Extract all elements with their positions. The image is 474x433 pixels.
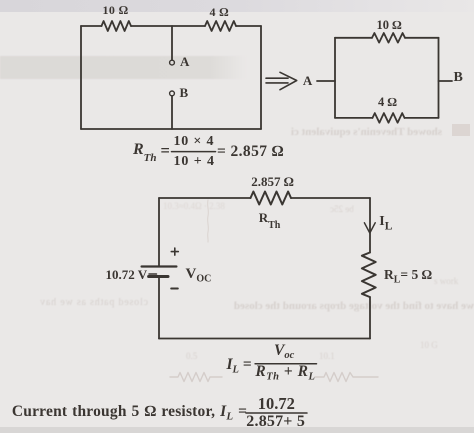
label node A: [180, 55, 189, 68]
resistor 4 ohm (circuit2 bottom): [373, 113, 405, 123]
wire: circuit2 right vertical: [438, 38, 440, 118]
label 10 ohm (circuit2): [377, 19, 402, 32]
wire: circuit3 right vertical lower: [369, 297, 371, 339]
resistor 10 ohm (circuit1 top): [102, 21, 132, 31]
resistor 4 ohm (circuit1 top): [205, 21, 236, 31]
wire: circuit2 left vertical: [334, 38, 336, 118]
bleedthrough line 1: [232, 127, 442, 138]
wire: circuit1 top left segment: [81, 25, 102, 27]
label B (circuit2): [454, 71, 463, 85]
bleedthrough box right: [452, 124, 470, 136]
wire: stub to node A: [171, 26, 173, 60]
wire: circuit3 left vertical upper: [158, 198, 160, 266]
battery VOC short plate: [149, 275, 168, 278]
bleedthrough line 2: [152, 301, 474, 312]
label 4 ohm (circuit1): [210, 6, 229, 18]
node A terminal circle: [170, 60, 175, 65]
wire: circuit1 bottom: [81, 128, 261, 130]
bottom fraction denominator: [246, 414, 305, 430]
bottom sentence: [12, 404, 247, 423]
wire: circuit2 top right segment: [405, 37, 439, 39]
formula RTh numerator: [174, 135, 215, 149]
wire: stub A to circuit2: [317, 80, 335, 82]
wire: circuit1 top right segment: [236, 25, 261, 27]
label 2.857 ohm (circuit3): [251, 175, 294, 188]
bleedthrough marks near IL fraction: [186, 352, 197, 361]
wire: circuit3 bottom: [159, 338, 370, 340]
node B terminal circle: [170, 91, 175, 96]
label RTh (circuit3): [259, 211, 281, 231]
formula IL lhs: [227, 357, 252, 376]
label VOC: [186, 267, 212, 285]
bleedthrough right margin marks: [420, 341, 438, 350]
wire: circuit2 bottom left segment: [335, 117, 373, 119]
current IL arrowhead: [364, 223, 375, 233]
implies arrow: [266, 72, 297, 89]
wire: circuit3 left vertical lower: [158, 278, 160, 339]
scan band top: [0, 0, 474, 12]
scan band mid-left: [0, 56, 246, 79]
label 4 ohm (circuit2): [378, 96, 397, 109]
wire: circuit1 top middle segment: [131, 25, 205, 27]
bleedthrough under circuit3 top wire: [330, 205, 354, 214]
wire: stub from node B: [171, 96, 173, 129]
label A (circuit2): [303, 74, 312, 87]
label RL = 5 ohm: [384, 268, 432, 286]
wire: stub circuit2 to B: [439, 80, 453, 82]
formula RTh result: [217, 144, 284, 160]
minus terminal sign: [171, 288, 178, 290]
resistor RL 5 ohm (circuit3 right): [362, 253, 376, 298]
formula IL denominator RTh+RL: [255, 364, 315, 383]
bottom fraction numerator: [258, 396, 295, 413]
fraction bar Voc over RTh+RL: [255, 363, 316, 365]
bleedthrough marks right of Voc fraction: [319, 352, 335, 361]
formula IL numerator Voc: [274, 343, 294, 362]
bleedthrough marks inside loop: [163, 202, 225, 211]
wire: circuit3 right vertical upper: [369, 198, 371, 253]
bleedthrough resistor right of IL formula: [315, 373, 378, 382]
wire: circuit2 top left segment: [335, 37, 372, 39]
label 10.72 V: [106, 268, 148, 281]
scan band bottom: [0, 427, 474, 433]
bleedthrough marks right margin: [434, 277, 458, 286]
wire: circuit2 bottom right segment: [405, 117, 439, 119]
formula RTh lhs: [133, 142, 157, 164]
fraction bar RTh formula: [172, 151, 216, 153]
fraction bar 10.72 over 2.857+5: [246, 412, 307, 414]
formula RTh denominator: [174, 155, 215, 169]
resistor 10 ohm (circuit2 top): [372, 33, 405, 43]
plus terminal sign: [171, 248, 178, 255]
formula RTh equals: [161, 143, 170, 160]
bleedthrough line 3: [0, 298, 148, 308]
label node B: [180, 86, 189, 99]
bleedthrough resistor left of IL formula: [170, 373, 222, 382]
resistor RTh 2.857 ohm (circuit3 top): [251, 192, 292, 205]
wire: circuit3 top right segment: [291, 197, 370, 199]
battery VOC long plate: [142, 265, 177, 267]
wire: circuit1 left vertical: [80, 26, 82, 129]
wire: circuit1 right vertical: [260, 26, 262, 129]
bleedthrough vertical squiggle inside circuit3: [207, 200, 210, 242]
label dash 10.72V to battery: [149, 273, 157, 275]
label IL current: [379, 215, 392, 233]
label 10 ohm (circuit1): [103, 4, 129, 16]
wire: circuit3 top left segment: [159, 197, 251, 199]
